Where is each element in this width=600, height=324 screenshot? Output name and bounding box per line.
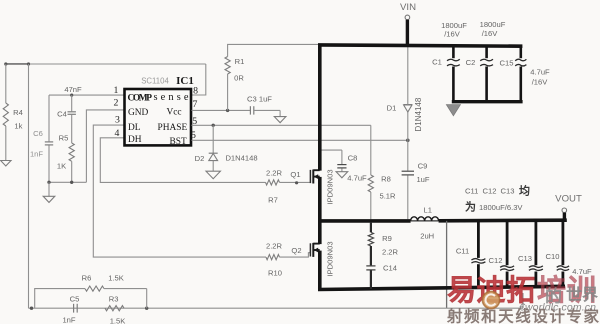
node junction D2 tap [212, 124, 215, 127]
capacitor C14 [366, 265, 375, 267]
svg-text:Vcc: Vcc [167, 107, 182, 117]
ground symbol input caps filled [446, 105, 460, 116]
resistor R4 [5, 64, 7, 103]
wire input cap bottom bus thick [452, 100, 523, 103]
node junction BST/D1/C9 [406, 139, 410, 143]
wire BST pin5 [192, 139, 408, 141]
svg-text:1.5K: 1.5K [108, 274, 124, 283]
svg-text:BST: BST [170, 137, 187, 147]
svg-text:L1: L1 [423, 205, 431, 214]
svg-text:C13: C13 [501, 187, 515, 196]
svg-text:D1: D1 [387, 104, 397, 113]
svg-text:R5: R5 [59, 134, 69, 143]
wire feedback bottom net [29, 307, 524, 309]
node junction sense/R4 [4, 62, 7, 65]
svg-text:Q2: Q2 [291, 246, 301, 255]
svg-text:1uF: 1uF [416, 175, 429, 184]
svg-text:C8: C8 [348, 154, 358, 163]
svg-text:1800uF: 1800uF [441, 21, 467, 30]
svg-text:5.1R: 5.1R [379, 192, 396, 201]
svg-text:4.7uF: 4.7uF [347, 174, 367, 183]
svg-text:2uH: 2uH [420, 232, 434, 241]
svg-text:7: 7 [192, 99, 197, 110]
svg-text:D2: D2 [195, 154, 205, 163]
svg-text:C15: C15 [500, 59, 514, 68]
svg-text:Q1: Q1 [290, 170, 300, 179]
transistor Q2 IPD09N03 [309, 243, 311, 256]
svg-text:C1: C1 [432, 58, 442, 67]
svg-text:R10: R10 [268, 269, 282, 278]
node junction R7/gate [295, 181, 298, 184]
capacitor C9 [407, 140, 409, 170]
wire phase node bus thick [318, 219, 411, 223]
svg-text:5: 5 [191, 130, 196, 141]
svg-text:2: 2 [114, 97, 119, 108]
ground symbol left GND net [43, 196, 55, 202]
op-amp controller U1 SC1104 body [125, 89, 192, 145]
capacitor C15 [519, 46, 522, 58]
node VIN terminal [405, 15, 410, 20]
svg-text:4: 4 [115, 128, 120, 139]
svg-text:SC1104: SC1104 [141, 77, 169, 86]
svg-text:射频和天线设计专家: 射频和天线设计专家 [446, 307, 599, 324]
node junction sense/left-riser [27, 62, 30, 65]
wire feedback riser under watermark [522, 293, 524, 308]
svg-text:PHASE: PHASE [158, 123, 188, 133]
svg-text:/16V: /16V [482, 29, 499, 38]
inductor L1 [411, 220, 439, 222]
svg-text:DL: DL [128, 123, 141, 133]
wire feedback box right [146, 289, 148, 309]
svg-text:R9: R9 [382, 234, 392, 243]
svg-text:IC1: IC1 [176, 75, 194, 87]
wire COMP pin1 [49, 94, 125, 96]
resistor R9 [370, 222, 372, 232]
svg-text:C13: C13 [518, 254, 532, 263]
wire output ground bus thick [318, 286, 565, 289]
svg-text:均: 均 [519, 184, 530, 198]
svg-text:C2: C2 [466, 58, 476, 67]
svg-text:C12: C12 [489, 256, 503, 265]
diode D2 [212, 125, 214, 153]
svg-text:8: 8 [193, 86, 198, 97]
node junction feedback right [145, 307, 148, 310]
resistor R10 [266, 255, 280, 260]
wire DH pin4 run [100, 138, 265, 183]
wire sense net top horizontal [6, 63, 206, 65]
svg-text:R6: R6 [82, 274, 92, 283]
svg-text:IPD09N03: IPD09N03 [325, 241, 334, 276]
capacitor C6 [48, 95, 50, 141]
node junction R1/Vcc [226, 109, 229, 112]
svg-text:2.2R: 2.2R [266, 169, 283, 178]
svg-text:R7: R7 [268, 196, 278, 205]
svg-text:1800uF/6.3V: 1800uF/6.3V [479, 203, 523, 212]
capacitor C13 [535, 221, 538, 265]
capacitor C10 [562, 221, 565, 265]
svg-text:1: 1 [114, 85, 119, 96]
wire Vcc pin7 [192, 109, 251, 111]
svg-text:1k: 1k [14, 121, 22, 130]
svg-text:1nF: 1nF [30, 150, 43, 159]
svg-text:VOUT: VOUT [555, 194, 582, 205]
svg-text:2.2R: 2.2R [266, 242, 283, 251]
ground symbol D2 [206, 171, 220, 179]
wire DL pin3 run [93, 125, 266, 257]
capacitor C2 [485, 46, 488, 58]
wire C3 ground stub [279, 110, 281, 116]
diode D1 [407, 112, 409, 140]
svg-text:1.5K: 1.5K [110, 317, 126, 324]
wire PHASE pin5 [192, 124, 371, 126]
capacitor C12 [506, 221, 509, 265]
svg-text:VIN: VIN [400, 2, 416, 13]
svg-text:GND: GND [128, 108, 149, 118]
node junction feedback left [30, 307, 33, 310]
wire VOUT stub thick [563, 213, 566, 221]
wire phase bus to Q2 thick [318, 221, 322, 244]
svg-text:R8: R8 [381, 175, 391, 184]
wire sense to pin8 riser [192, 64, 206, 95]
svg-text:IPD09N03: IPD09N03 [325, 169, 334, 204]
ground symbol C3 [274, 117, 286, 123]
node junction C6 bottom [47, 181, 50, 184]
svg-text:1nF: 1nF [62, 316, 75, 324]
svg-text:C5: C5 [70, 295, 80, 304]
transistor Q1 IPD09N03 [309, 170, 311, 183]
resistor R3 [105, 306, 124, 311]
resistor R6 [35, 289, 85, 309]
svg-text:D1N4148: D1N4148 [225, 154, 257, 163]
capacitor C5 [73, 304, 75, 313]
wire drain bus Q1 thick [318, 45, 322, 171]
svg-text:C4: C4 [57, 110, 67, 119]
capacitor C4 [71, 95, 73, 111]
resistor R7 [266, 180, 280, 185]
svg-text:C11: C11 [456, 246, 469, 255]
node junction C4 tap [70, 94, 73, 97]
svg-text:为: 为 [465, 200, 476, 214]
wire GND net horizontal [49, 181, 86, 183]
capacitor C11 [477, 221, 480, 258]
capacitor C1 [452, 46, 455, 58]
svg-text:D1N4148: D1N4148 [414, 97, 423, 131]
wire sense left riser down to feedback node [28, 64, 30, 308]
watermark orange logo disc [482, 291, 499, 308]
resistor R8 [370, 125, 372, 175]
svg-text:R1: R1 [235, 57, 245, 66]
svg-text:3: 3 [115, 115, 120, 126]
wire ground stub [48, 182, 50, 196]
svg-text:C3 1uF: C3 1uF [247, 95, 272, 104]
wire feedback tap vertical [446, 221, 448, 308]
node junction R5 bottom [70, 181, 73, 184]
svg-text:47nF: 47nF [64, 85, 82, 94]
svg-text:0R: 0R [234, 74, 244, 83]
capacitor C3 [249, 106, 251, 114]
node VOUT terminal [562, 208, 567, 213]
wire VIN stub thick [406, 20, 409, 47]
svg-text:1K: 1K [57, 162, 66, 171]
svg-text:2.2R: 2.2R [382, 248, 399, 257]
svg-text:/16V: /16V [444, 30, 461, 39]
svg-text:COMP: COMP [128, 93, 153, 103]
svg-text:C14: C14 [383, 263, 397, 272]
svg-text:C9: C9 [418, 162, 428, 171]
capacitor C8 [322, 149, 342, 151]
svg-text:DH: DH [128, 135, 142, 145]
svg-text:C10: C10 [546, 252, 560, 261]
wire VOUT bus thick [439, 218, 567, 222]
svg-text:R3: R3 [109, 295, 119, 304]
svg-text:R4: R4 [13, 108, 23, 117]
resistor R1 [227, 74, 229, 110]
ground symbol below R4 [1, 161, 11, 166]
resistor R5 [69, 143, 74, 161]
svg-text:4.7uF: 4.7uF [530, 67, 550, 76]
wire VIN bus thick [318, 45, 522, 46]
svg-text:C6: C6 [33, 129, 43, 138]
wire GND pin2 [86, 110, 124, 182]
svg-text:/16V: /16V [532, 77, 549, 86]
svg-text:C11: C11 [465, 187, 478, 196]
ground symbol C8 [336, 172, 348, 178]
svg-text:C12: C12 [483, 187, 497, 196]
svg-text:1800uF: 1800uF [480, 20, 506, 29]
